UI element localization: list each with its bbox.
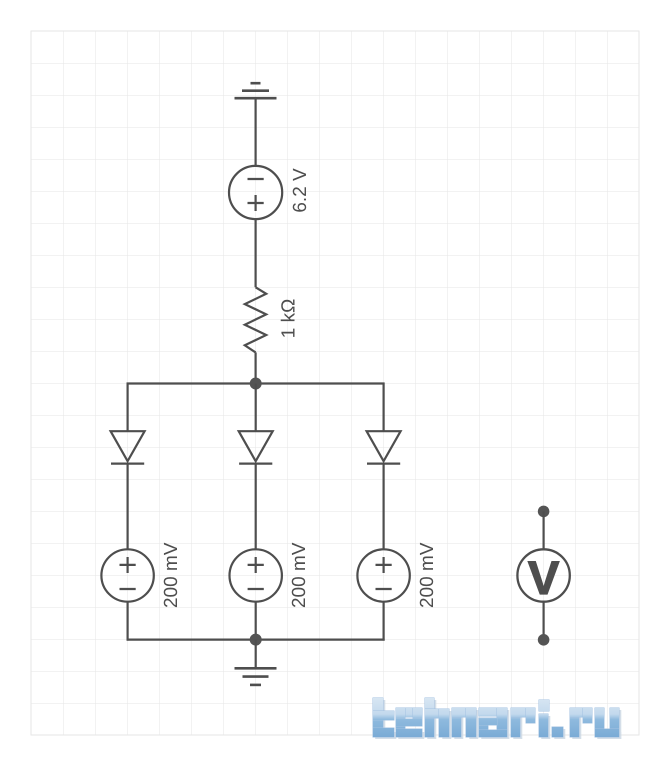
voltage source V3 (200 mV), plus on top xyxy=(230,549,282,601)
wire: node B to GND2 xyxy=(255,640,257,669)
. xyxy=(552,727,563,737)
u xyxy=(595,708,604,737)
t xyxy=(373,698,383,737)
diode D1 xyxy=(111,431,145,463)
voltmeter U1 bottom terminal dot xyxy=(538,634,550,646)
label R1 value "1 kΩ" xyxy=(281,300,295,337)
wire: V3 bottom to node B xyxy=(255,602,257,641)
diode D3 xyxy=(367,431,401,463)
r xyxy=(511,708,520,737)
resistor R1 zigzag xyxy=(245,287,266,352)
voltage source V2 (200 mV), plus on top xyxy=(101,549,153,601)
wire: D3 to V4 top xyxy=(383,464,385,550)
wire: bottom bus xyxy=(127,638,385,640)
node A junction dot xyxy=(250,378,262,390)
h xyxy=(425,698,434,737)
wire: D2 to V3 top xyxy=(255,464,257,550)
voltmeter U1 body xyxy=(517,549,569,601)
voltage source V4 (200 mV), plus on top xyxy=(357,549,409,601)
wire: R1 bottom to node A xyxy=(255,352,257,383)
i xyxy=(539,700,549,711)
wire: right branch drop to D3 xyxy=(383,383,385,432)
diode D2 xyxy=(239,431,273,463)
label V1 value "6.2 V" xyxy=(293,168,306,211)
wire: D1 to V2 top xyxy=(126,464,128,550)
wire: middle branch node A to D2 xyxy=(255,384,257,432)
wire: V4 bottom to bottom bus xyxy=(383,602,385,641)
node B junction dot xyxy=(250,634,262,646)
watermark "tehnari.ru" shadow xyxy=(375,700,621,739)
n xyxy=(452,708,461,737)
ground GND2 (bottom) xyxy=(235,668,277,685)
label V3 value "200 mV" xyxy=(292,543,305,607)
r xyxy=(570,708,579,737)
voltage source V1 (6.2 V), minus on top xyxy=(229,166,282,219)
a xyxy=(479,708,507,716)
watermark "tehnari.ru" xyxy=(373,698,619,737)
e xyxy=(396,708,422,717)
label V4 value "200 mV" xyxy=(420,543,433,607)
wire: left branch drop to D1 xyxy=(126,383,128,432)
wire: voltmeter to bottom terminal xyxy=(542,602,544,640)
wire: top bus from left branch to right branch xyxy=(127,382,385,384)
wire: top terminal to voltmeter xyxy=(542,511,544,549)
wire: GND1 to V1 top xyxy=(255,98,257,166)
label V2 value "200 mV" xyxy=(164,543,177,607)
wire: V1 bottom to R1 top xyxy=(255,219,257,287)
wire: V2 bottom to bottom bus xyxy=(126,602,128,641)
ground GND1 (top, flipped) xyxy=(235,83,277,98)
voltmeter U1 top terminal dot xyxy=(538,506,550,518)
